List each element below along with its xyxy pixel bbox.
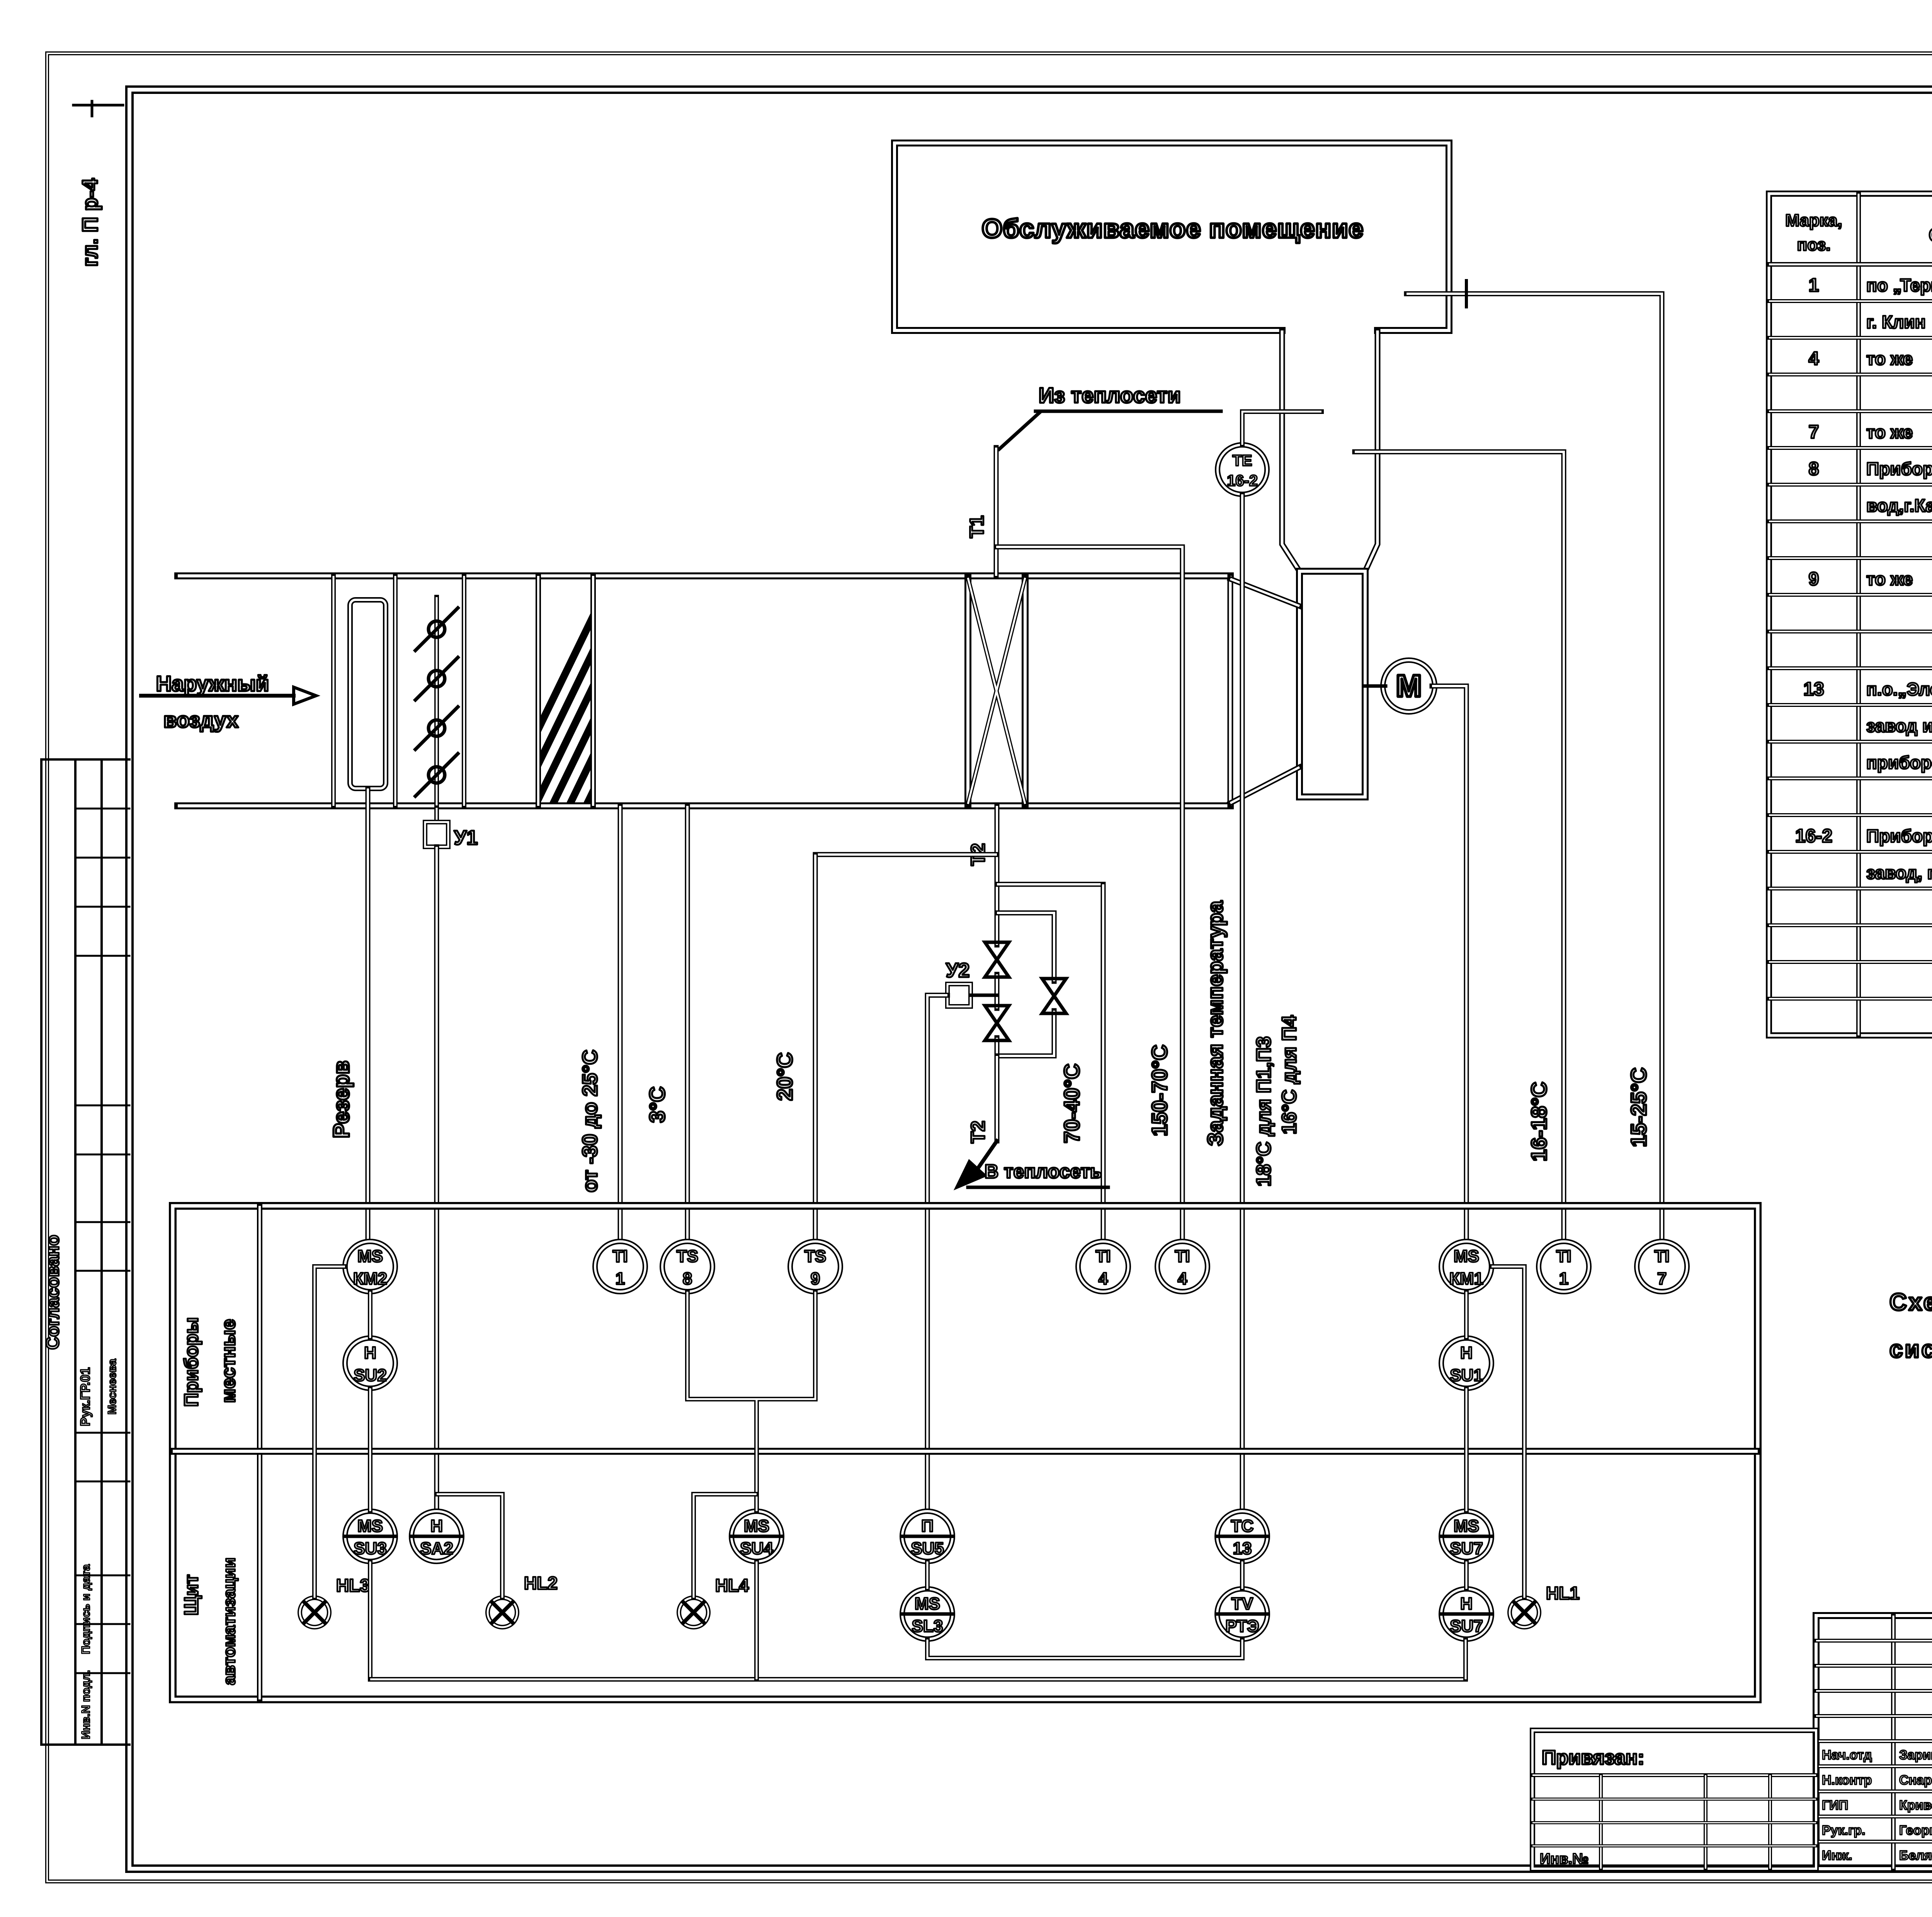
svg-text:ТI: ТI	[1556, 1247, 1571, 1266]
svg-text:завод, г. Луцк: завод, г. Луцк	[1866, 863, 1932, 883]
discharge duct left wall	[1282, 330, 1299, 571]
svg-text:МS: МS	[357, 1247, 383, 1266]
pipe T2 to heat network	[995, 1056, 1000, 1141]
svg-text:HL2: HL2	[524, 1573, 558, 1593]
svg-text:16°С для П4: 16°С для П4	[1278, 1015, 1301, 1134]
svg-text:15-25°С: 15-25°С	[1626, 1067, 1651, 1147]
instrument MS KM2	[345, 1241, 395, 1292]
louver damper stem	[434, 597, 439, 808]
svg-text:ТI: ТI	[1175, 1247, 1190, 1266]
duct-to-fan transition bottom	[1230, 767, 1299, 803]
instrument TS 9	[790, 1241, 840, 1292]
leader to T1 pipe	[999, 412, 1040, 449]
svg-text:Т1: Т1	[966, 516, 988, 538]
svg-text:150-70°С: 150-70°С	[1147, 1045, 1172, 1136]
svg-text:SU7: SU7	[1450, 1617, 1483, 1636]
instrument Н SA2	[412, 1511, 462, 1561]
svg-text:Наружный: Наружный	[156, 671, 269, 696]
valve V1	[985, 942, 1009, 977]
lamp HL3	[300, 1598, 329, 1627]
controller TC 13	[1217, 1511, 1267, 1561]
svg-text:Снарковск.: Снарковск.	[1899, 1773, 1932, 1788]
svg-text:16-2: 16-2	[1795, 826, 1832, 846]
TE stem into duct	[1242, 412, 1321, 445]
instrument MS SU4	[731, 1511, 782, 1561]
svg-text:МS: МS	[1454, 1247, 1479, 1266]
svg-text:ГИП: ГИП	[1822, 1798, 1848, 1813]
svg-text:ТI: ТI	[1654, 1247, 1669, 1266]
lamp HL2	[488, 1598, 517, 1627]
line TE to controller TC13 (set temperature)	[1240, 494, 1245, 1511]
svg-text:SU5: SU5	[911, 1539, 944, 1558]
svg-text:Приборостроительный за-: Приборостроительный за-	[1866, 459, 1932, 479]
louver damper blades	[429, 621, 445, 637]
svg-text:ТS: ТS	[804, 1247, 826, 1266]
svg-text:В теплосеть: В теплосеть	[985, 1161, 1102, 1182]
svg-text:SА2: SА2	[420, 1539, 453, 1558]
svg-text:то же: то же	[1866, 422, 1913, 442]
svg-text:Инв.N подл.: Инв.N подл.	[80, 1670, 92, 1739]
fan motor M	[1383, 660, 1435, 712]
duct section line 3	[462, 576, 466, 806]
svg-text:приборов, г. Ереван: приборов, г. Ереван	[1866, 752, 1932, 773]
instrument TI 4b	[1157, 1241, 1207, 1292]
outside air arrow	[141, 694, 294, 698]
instrument TV РТЭ	[1217, 1589, 1267, 1639]
title block left columns	[1891, 1616, 1896, 1869]
svg-text:МS: МS	[915, 1594, 940, 1613]
wire tap to HL2	[437, 1494, 502, 1598]
svg-text:КМ1: КМ1	[1449, 1269, 1483, 1288]
heater (crossed box)	[964, 576, 971, 806]
damper actuator У1	[434, 808, 439, 822]
svg-text:4: 4	[1809, 349, 1819, 369]
svg-text:HL1: HL1	[1546, 1583, 1580, 1603]
svg-text:SL3: SL3	[912, 1617, 943, 1636]
left margin stamp column grid	[40, 759, 43, 1745]
svg-text:автоматизации: автоматизации	[220, 1558, 239, 1685]
svg-text:гл. П р-4: гл. П р-4	[78, 179, 102, 267]
svg-text:Марка,: Марка,	[1785, 211, 1842, 230]
svg-text:Щит: Щит	[180, 1575, 202, 1616]
svg-text:Зарицкий: Зарицкий	[1899, 1748, 1932, 1762]
svg-text:HL3: HL3	[336, 1575, 370, 1595]
valve group left branch	[995, 913, 1000, 1056]
svg-text:Нач.отд: Нач.отд	[1822, 1748, 1872, 1762]
instrument Н SU2	[345, 1338, 395, 1388]
svg-text:поз.: поз.	[1797, 235, 1831, 254]
svg-text:Обслуживаемое помещение: Обслуживаемое помещение	[982, 214, 1364, 243]
wire KM1-SU1-SU7 chain	[1464, 1292, 1469, 1589]
svg-text:ТЕ: ТЕ	[1232, 452, 1252, 469]
reserve line from pocket	[366, 788, 371, 1241]
svg-text:13: 13	[1803, 679, 1824, 700]
svg-text:ТS: ТS	[677, 1247, 698, 1266]
branch line to TI4a	[997, 882, 1103, 887]
wire KM1 to HL1	[1492, 1267, 1524, 1598]
thermometer pocket in duct	[350, 600, 386, 788]
svg-text:7: 7	[1809, 422, 1819, 443]
svg-text:У2: У2	[946, 959, 969, 982]
svg-text:РТЭ: РТЭ	[1226, 1617, 1259, 1636]
svg-text:4: 4	[1178, 1269, 1187, 1288]
svg-text:1: 1	[616, 1269, 625, 1288]
instrument MS KM1	[1441, 1241, 1492, 1292]
svg-text:Из теплосети: Из теплосети	[1039, 383, 1181, 407]
svg-text:HL4: HL4	[715, 1575, 749, 1595]
wire SU7 to bus	[1463, 1639, 1468, 1679]
svg-text:Инж.: Инж.	[1822, 1848, 1852, 1863]
svg-text:Заданная температура: Заданная температура	[1203, 901, 1227, 1146]
svg-text:1: 1	[1809, 275, 1819, 296]
duct end wall	[1228, 576, 1233, 806]
wire У1 to panel	[434, 847, 439, 1511]
arrow В теплосеть	[971, 1141, 997, 1179]
svg-text:местные: местные	[218, 1319, 239, 1403]
instrument Н SU1	[1441, 1338, 1492, 1388]
svg-text:70-40°С: 70-40°С	[1060, 1064, 1084, 1143]
wire SU3 to bottom bus	[368, 1561, 372, 1679]
svg-text:4: 4	[1099, 1269, 1108, 1288]
svg-text:КМ2: КМ2	[353, 1269, 387, 1288]
svg-text:7: 7	[1657, 1269, 1667, 1288]
svg-text:Инв.№: Инв.№	[1540, 1851, 1589, 1867]
svg-text:Георгиева: Георгиева	[1899, 1823, 1932, 1838]
wire SL3 to TV loop	[927, 1639, 1242, 1658]
svg-text:3°С: 3°С	[645, 1086, 669, 1123]
svg-text:Привязан:: Привязан:	[1542, 1747, 1645, 1769]
valve V2	[985, 1006, 1009, 1040]
svg-text:МS: МS	[744, 1517, 769, 1536]
svg-text:Н: Н	[430, 1517, 443, 1536]
svg-text:то же: то же	[1866, 349, 1913, 369]
instrument MS SU3	[345, 1511, 395, 1561]
svg-text:ТV: ТV	[1231, 1594, 1253, 1613]
duct section line 1	[331, 576, 336, 806]
instrument TI 1b	[1539, 1241, 1589, 1292]
svg-text:У1: У1	[454, 827, 478, 849]
control wire У2 to panel	[927, 995, 947, 1511]
svg-text:ТI: ТI	[1095, 1247, 1111, 1266]
motor control wire to MS KM1	[1432, 686, 1466, 1241]
supply air sensor line 16-18C	[1355, 452, 1564, 1241]
svg-text:8: 8	[683, 1269, 692, 1288]
svg-text:по „Термоприбор,”: по „Термоприбор,”	[1866, 275, 1932, 295]
svg-text:П: П	[921, 1517, 934, 1536]
instrument П SU5	[902, 1511, 952, 1561]
panel box	[173, 1206, 1758, 1699]
wire KM2-SU2-SU3 chain	[368, 1292, 372, 1511]
instrument TI 7	[1637, 1241, 1687, 1292]
lamp HL4	[679, 1598, 708, 1627]
valve V3 (bypass)	[1042, 979, 1066, 1013]
wire SU4 to bus	[754, 1561, 759, 1679]
instrument TS 8	[662, 1241, 713, 1292]
instrument MS SL3	[902, 1589, 952, 1639]
svg-text:Подпись и дата: Подпись и дата	[80, 1564, 92, 1654]
thermo element TE 16-2	[1218, 445, 1267, 494]
svg-text:Т2: Т2	[967, 1121, 989, 1143]
filter (hatched band)	[536, 576, 541, 806]
wire TS8 TS9 merge to SU4	[687, 1292, 815, 1511]
svg-text:SU1: SU1	[1450, 1366, 1483, 1385]
svg-text:SU7: SU7	[1450, 1539, 1483, 1558]
svg-text:Н: Н	[364, 1343, 376, 1362]
svg-text:Рук.ГР.01: Рук.ГР.01	[78, 1367, 93, 1426]
svg-text:завод измерительных: завод измерительных	[1866, 716, 1932, 736]
svg-text:16-18°С: 16-18°С	[1527, 1082, 1551, 1161]
panel bottom bus	[370, 1677, 1466, 1682]
svg-text:18°С для П1,П3: 18°С для П1,П3	[1253, 1036, 1275, 1187]
title block left rows	[1816, 1639, 1932, 1643]
svg-text:Рук.гр.: Рук.гр.	[1822, 1823, 1865, 1838]
impulse line from T1 to thermometer TI4b	[996, 547, 1182, 1241]
svg-text:ТI: ТI	[612, 1247, 628, 1266]
svg-text:Обозначение: Обозначение	[1929, 224, 1932, 246]
pipe T2 (return) from heater bottom	[995, 806, 1000, 913]
svg-text:системы и применима для систем: системы и применима для систем П1,П3,П4	[1889, 1336, 1932, 1363]
svg-text:Кривошея: Кривошея	[1899, 1798, 1932, 1813]
sensor line от -30 до 25С	[618, 806, 623, 1241]
svg-text:от -30 до 25°С: от -30 до 25°С	[578, 1050, 602, 1192]
lamp HL1	[1510, 1598, 1539, 1627]
svg-text:1: 1	[1559, 1269, 1568, 1288]
discharge duct right wall	[1365, 330, 1378, 571]
instrument Н SU7	[1441, 1589, 1492, 1639]
svg-text:Приборостроительный: Приборостроительный	[1866, 826, 1932, 846]
svg-text:13: 13	[1233, 1539, 1252, 1558]
svg-text:то же: то же	[1866, 569, 1913, 589]
title block outer box	[1816, 1616, 1932, 1869]
svg-text:г. Клин: г. Клин	[1866, 312, 1925, 332]
branch line to TS9	[815, 852, 997, 857]
instrument TI 1	[595, 1241, 645, 1292]
svg-text:16-2: 16-2	[1227, 472, 1258, 489]
svg-text:Н.контр: Н.контр	[1822, 1773, 1872, 1788]
sensor line 20C down to TS9	[813, 855, 818, 1241]
sensor line 70-40C down to TI4a	[1101, 884, 1106, 1241]
svg-text:вод,г.Каменец-Подольский: вод,г.Каменец-Подольский	[1866, 495, 1932, 516]
main duct bottom line	[178, 802, 1230, 809]
svg-text:Резерв: Резерв	[329, 1061, 354, 1138]
svg-text:9: 9	[811, 1269, 820, 1288]
wire HL4 tap	[694, 1494, 757, 1598]
svg-text:20°С: 20°С	[772, 1052, 797, 1101]
svg-text:Схема автоматизации составлена: Схема автоматизации составлена для одной…	[1889, 1289, 1932, 1316]
heater diagonals	[968, 578, 1025, 804]
svg-text:МS: МS	[357, 1517, 383, 1536]
wire KM2 to HL3	[315, 1267, 345, 1598]
wire TC13 to TV	[1240, 1561, 1245, 1589]
instrument MS SU7	[1441, 1511, 1492, 1561]
svg-text:SU4: SU4	[740, 1539, 773, 1558]
duct section line 2	[393, 576, 398, 806]
svg-text:Меснеева: Меснеева	[106, 1359, 119, 1415]
svg-text:МS: МS	[1454, 1517, 1479, 1536]
room air sensor line 15-25C	[1406, 294, 1662, 1241]
svg-text:воздух: воздух	[163, 708, 238, 732]
sensor line 3C	[685, 806, 690, 1241]
panel label column divider	[257, 1206, 262, 1699]
svg-text:п.о.„Электроприбор”: п.о.„Электроприбор”	[1866, 679, 1932, 699]
pipe T1 (supply) into heater	[994, 448, 999, 576]
svg-text:Беляева: Беляева	[1899, 1848, 1932, 1863]
svg-text:Н: Н	[1460, 1594, 1473, 1613]
room box: Обслуживаемое помещение	[895, 143, 1449, 330]
svg-text:SU2: SU2	[354, 1366, 387, 1385]
panel row divider	[173, 1448, 1758, 1455]
svg-text:9: 9	[1809, 569, 1819, 589]
instrument TI 4a	[1078, 1241, 1128, 1292]
svg-text:SU3: SU3	[354, 1539, 387, 1558]
svg-text:ТС: ТС	[1231, 1517, 1254, 1536]
spec table grid	[1769, 194, 1932, 1035]
svg-text:8: 8	[1809, 459, 1819, 479]
privyazan block	[1532, 1730, 1816, 1869]
svg-text:Н: Н	[1460, 1343, 1473, 1362]
duct-to-fan transition top	[1230, 579, 1299, 606]
svg-text:М: М	[1396, 669, 1422, 703]
actuator box У2	[947, 984, 971, 1006]
fan housing	[1299, 571, 1365, 797]
valve bypass branch	[997, 913, 1054, 1056]
main duct top line	[178, 572, 1230, 579]
svg-text:Согласовано: Согласовано	[43, 1235, 63, 1350]
wire SU5 to SL3	[925, 1561, 930, 1589]
svg-text:Приборы: Приборы	[180, 1317, 202, 1407]
